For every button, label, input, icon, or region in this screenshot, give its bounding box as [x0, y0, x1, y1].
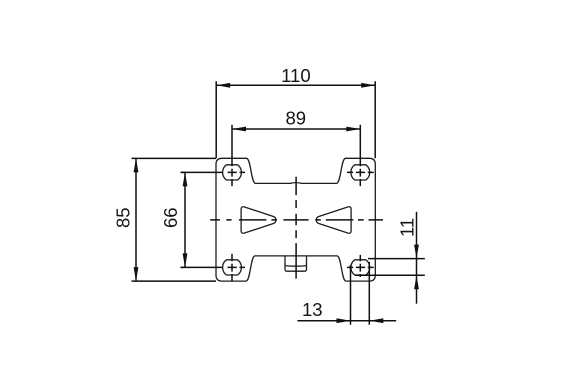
dimension 13 arrow right: [369, 318, 383, 323]
slot hole bottom-right: [351, 260, 370, 275]
svg-text:66: 66: [160, 207, 181, 228]
svg-text:110: 110: [281, 65, 311, 86]
dimension 66 line: [184, 172, 186, 267]
centre mark bottom-right hole: [347, 255, 374, 277]
dimension 85 arrow top: [134, 158, 139, 172]
dimension 85 line: [135, 158, 137, 281]
slot hole top-right: [351, 165, 370, 180]
svg-text:85: 85: [113, 207, 134, 228]
dimension 66 extension lines: [181, 172, 186, 267]
svg-text:13: 13: [302, 299, 323, 320]
centre mark top-left hole: [181, 129, 246, 186]
dimension 89 extension lines: [232, 125, 360, 129]
triangle cutout right: [316, 207, 351, 234]
tab inner line: [285, 265, 307, 268]
dimension 89 arrow left: [232, 127, 246, 132]
svg-text:89: 89: [286, 108, 307, 129]
dimension 110 line: [216, 84, 375, 86]
dimension 13 line: [297, 320, 396, 322]
dimension 110 arrow right: [361, 83, 375, 88]
dimension 11 arrow lower: [414, 275, 419, 289]
slot hole bottom-left: [223, 260, 242, 275]
triangle cutout left: [241, 207, 276, 234]
dimension 11 line: [416, 212, 418, 304]
horizontal centre line: [210, 219, 383, 221]
centre mark top-right hole: [347, 129, 374, 186]
dimension 85 extension lines: [132, 158, 217, 281]
dimension 66 arrow bottom: [183, 253, 188, 267]
dimension 66 arrow top: [183, 172, 188, 186]
dimension 11 arrow upper: [414, 245, 419, 259]
centre mark bottom-left hole: [181, 254, 246, 281]
dimension 11 extension lines: [355, 259, 425, 276]
plate outline: [216, 158, 375, 281]
dimension 13 extension lines: [351, 262, 370, 325]
bottom centre tab: [285, 256, 307, 271]
dimension 89 line: [232, 128, 360, 130]
svg-text:11: 11: [396, 218, 417, 237]
dimension 85 arrow bottom: [134, 267, 139, 281]
vertical centre line: [295, 177, 297, 279]
dimension 110 extension lines: [216, 81, 375, 158]
slot hole top-left: [223, 165, 242, 180]
dimension 110 arrow left: [216, 83, 230, 88]
dimension 13 arrow left: [337, 318, 351, 323]
dimension 89 arrow right: [346, 127, 360, 132]
